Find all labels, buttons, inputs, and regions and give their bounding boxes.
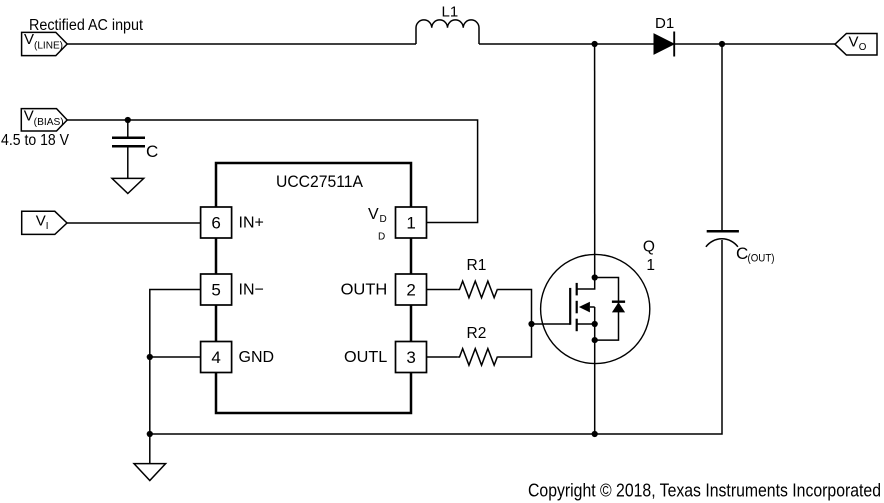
svg-text:C: C — [146, 142, 158, 161]
resistor R1 — [457, 281, 498, 298]
wire node B to C(OUT) — [721, 44, 723, 231]
pin 6 — [201, 207, 232, 238]
svg-text:Rectified AC input: Rectified AC input — [29, 17, 144, 34]
svg-text:GND: GND — [239, 349, 275, 366]
svg-text:Q: Q — [643, 239, 655, 256]
transistor Q1 — [541, 254, 650, 363]
node B (output junction) — [719, 41, 725, 47]
terminal VO — [835, 34, 877, 56]
wire pin 2 to R1 — [427, 289, 458, 291]
source vertical — [594, 324, 596, 340]
svg-text:R2: R2 — [467, 325, 487, 342]
channel segment top — [576, 283, 578, 296]
body diode — [612, 302, 625, 312]
svg-text:IN−: IN− — [239, 282, 264, 299]
wire V(LINE) to L1 — [67, 43, 416, 45]
pin 1 — [396, 207, 427, 238]
svg-text:L1: L1 — [442, 3, 459, 20]
wire node A to D1 — [595, 43, 654, 45]
ground (main) — [134, 464, 166, 481]
drain node dot — [592, 274, 598, 280]
svg-text:3: 3 — [406, 348, 415, 367]
node E (ground rail left junction) — [147, 431, 153, 437]
svg-text:R1: R1 — [467, 257, 487, 274]
substrate arrow — [579, 302, 590, 313]
pin 2 — [396, 274, 427, 305]
ground rail wire — [150, 240, 722, 434]
svg-text:6: 6 — [211, 214, 220, 233]
pin label VDD — [368, 206, 387, 242]
gate bar — [569, 288, 571, 325]
svg-text:V: V — [849, 34, 859, 51]
substrate node dot — [592, 321, 598, 327]
terminal V(LINE) — [22, 31, 68, 55]
terminal VI — [22, 211, 67, 234]
pin 5 — [201, 274, 232, 305]
svg-text:D: D — [380, 214, 387, 225]
svg-text:1: 1 — [646, 257, 655, 274]
source connection — [577, 323, 595, 325]
capacitor C — [112, 138, 145, 146]
node D (pin4 junction) — [147, 354, 153, 360]
resistor R2 — [457, 349, 498, 366]
wire VI to pin 6 — [67, 222, 201, 224]
node C (bias junction) — [125, 117, 131, 123]
svg-text:C: C — [736, 244, 748, 263]
wire node B to VO — [722, 43, 835, 45]
svg-text:Copyright © 2018, Texas Instru: Copyright © 2018, Texas Instruments Inco… — [528, 480, 881, 501]
inductor L1 — [416, 20, 479, 44]
wire V(BIAS) to pin1 corner — [67, 120, 477, 223]
node F (gate junction) — [528, 321, 534, 327]
svg-text:D: D — [378, 231, 385, 242]
op-amp U1 UCC27511A body — [216, 163, 411, 413]
svg-text:(BIAS): (BIAS) — [34, 117, 64, 128]
svg-text:IN+: IN+ — [239, 215, 264, 232]
wire node A to drain — [594, 44, 596, 278]
svg-text:V: V — [24, 108, 34, 125]
pin 3 — [396, 342, 427, 373]
svg-text:2: 2 — [406, 281, 415, 300]
drain connection — [577, 278, 595, 290]
wire node F to gate — [532, 323, 571, 325]
svg-text:(OUT): (OUT) — [748, 253, 775, 265]
wire pin 4 to left rail — [150, 356, 201, 358]
label Q1 — [643, 239, 655, 275]
label C(OUT) — [736, 244, 775, 265]
pin 4 — [201, 342, 232, 373]
node A (switch node junction) — [592, 41, 598, 47]
node G (source rail junction) — [592, 431, 598, 437]
capacitor C(OUT) — [706, 231, 739, 247]
wire pin 3 to R2 — [427, 356, 458, 358]
svg-text:4: 4 — [211, 348, 220, 367]
svg-text:V: V — [36, 212, 46, 229]
wire pin 5 to left rail — [150, 290, 201, 464]
channel segment middle — [576, 301, 578, 314]
wire R1 to node F — [498, 290, 532, 358]
source node dot — [592, 337, 598, 343]
svg-text:V: V — [368, 206, 379, 223]
wire source to ground rail — [594, 340, 596, 434]
channel segment bottom — [576, 319, 578, 332]
svg-text:V: V — [24, 31, 34, 48]
terminal V(BIAS) — [21, 108, 67, 131]
wire node C to capacitor C — [127, 120, 129, 137]
ground (bias decoupling) — [112, 178, 144, 193]
wire L1 to node A — [479, 43, 595, 45]
svg-text:UCC27511A: UCC27511A — [276, 172, 364, 191]
svg-text:D1: D1 — [655, 15, 674, 32]
svg-text:4.5 to 18 V: 4.5 to 18 V — [1, 132, 70, 149]
svg-text:O: O — [859, 42, 867, 53]
svg-text:5: 5 — [211, 281, 220, 300]
diode D1 — [654, 32, 674, 57]
wire capacitor C to ground — [127, 146, 129, 178]
svg-text:OUTL: OUTL — [344, 349, 387, 366]
svg-text:I: I — [46, 221, 49, 232]
body diode branch — [595, 278, 619, 341]
svg-text:OUTH: OUTH — [341, 282, 388, 299]
svg-text:(LINE): (LINE) — [34, 40, 63, 51]
wire D1 to node B — [674, 43, 722, 45]
svg-text:1: 1 — [406, 214, 415, 233]
